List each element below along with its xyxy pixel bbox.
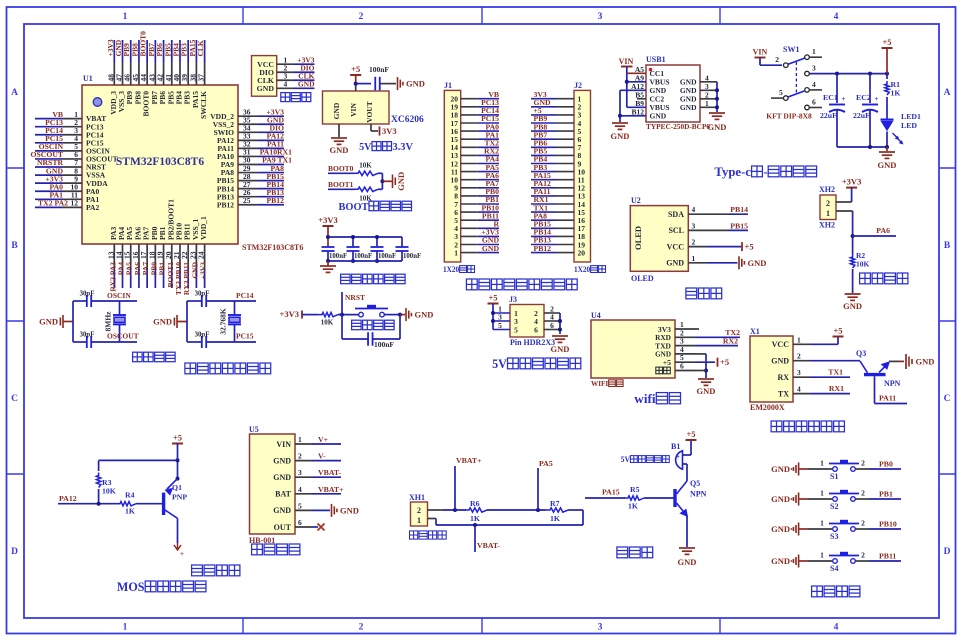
svg-text:3: 3 — [812, 64, 816, 73]
U1 pin 41 PB5 — [171, 40, 173, 62]
svg-text:GND: GND — [39, 317, 58, 327]
SW1 lever — [788, 58, 805, 64]
svg-text:100nF: 100nF — [354, 253, 372, 260]
svg-text:1: 1 — [692, 254, 696, 263]
svg-text:3: 3 — [598, 12, 603, 22]
svg-text:GND: GND — [406, 79, 425, 89]
wire — [136, 503, 162, 505]
svg-text:5: 5 — [298, 501, 302, 510]
svg-text:+5: +5 — [351, 64, 360, 74]
title crystal circuit — [133, 352, 143, 362]
ground — [612, 122, 628, 124]
title buzzer — [617, 547, 628, 558]
svg-text:4: 4 — [284, 79, 288, 88]
svg-text:GND: GND — [153, 317, 172, 327]
wire collector up — [686, 464, 688, 481]
wire emitter to ground — [889, 360, 899, 362]
svg-text:J3: J3 — [509, 295, 517, 304]
svg-text:C: C — [11, 394, 18, 404]
svg-text:2: 2 — [861, 489, 865, 498]
capacitor 30pF top — [201, 295, 203, 307]
svg-text:RX1: RX1 — [829, 384, 844, 393]
svg-text:5: 5 — [514, 325, 518, 334]
svg-text:22uF: 22uF — [853, 111, 870, 120]
U1 pin 39 PB3 — [187, 40, 189, 62]
svg-text:PA12: PA12 — [59, 494, 77, 503]
svg-text:+: + — [676, 453, 680, 461]
wire — [206, 300, 256, 302]
svg-text:VIN: VIN — [619, 57, 634, 66]
title independent buttons — [812, 586, 823, 597]
U1 pin 16 PA6 — [138, 244, 140, 268]
transistor Q5 NPN — [673, 489, 676, 507]
ground — [738, 256, 740, 269]
crystal 8MHz — [119, 301, 121, 315]
svg-text:U4: U4 — [591, 311, 601, 320]
ground — [709, 112, 725, 114]
pushbutton reset — [359, 312, 364, 317]
svg-text:2: 2 — [359, 12, 364, 22]
wire — [381, 173, 383, 189]
svg-text:GND: GND — [666, 259, 684, 268]
U1 pin 31 PA10 — [238, 155, 258, 157]
svg-text:EC2: EC2 — [856, 93, 871, 102]
U1 pin 42 PB6 — [163, 40, 165, 62]
svg-text:GND: GND — [771, 524, 790, 534]
svg-text:+5: +5 — [663, 358, 671, 367]
svg-text:4: 4 — [834, 623, 839, 633]
svg-text:GND: GND — [273, 473, 291, 482]
wire — [378, 188, 382, 190]
resistor R5 1K — [624, 496, 644, 500]
resistor R2 10K — [850, 254, 854, 268]
svg-text:D: D — [11, 547, 18, 557]
U1 pin 43 PB7 — [154, 40, 156, 62]
svg-text:1K: 1K — [125, 507, 135, 516]
connector download-port body — [252, 56, 277, 97]
U1 pin 38 PA15 — [195, 40, 197, 62]
svg-text:RX: RX — [777, 373, 789, 382]
U1 pin 34 SWIO — [238, 131, 258, 133]
svg-text:5: 5 — [498, 321, 502, 330]
svg-text:GND: GND — [708, 122, 727, 132]
transistor Q1 PNP — [162, 493, 165, 515]
svg-text:1: 1 — [820, 519, 824, 528]
wire pin5 +5 — [695, 361, 715, 363]
svg-text:32.768K: 32.768K — [219, 308, 228, 335]
ground — [405, 308, 407, 321]
svg-text:BOOT0: BOOT0 — [328, 164, 354, 173]
svg-text:SCL: SCL — [668, 226, 684, 235]
svg-text:1K: 1K — [891, 89, 901, 98]
svg-text:2: 2 — [692, 238, 696, 247]
power arrow V+ — [174, 543, 181, 550]
U1 pin 15 PA5 — [130, 244, 132, 268]
svg-text:wifi: wifi — [634, 391, 656, 406]
wire buzzer top to +5 — [683, 454, 692, 456]
svg-text:R7: R7 — [550, 499, 560, 508]
wire base to PA11 — [874, 376, 876, 403]
svg-text:U2: U2 — [631, 196, 641, 205]
ground — [679, 547, 695, 549]
svg-text:B: B — [11, 241, 18, 251]
wire pin1 — [695, 328, 699, 330]
svg-text:Type-c: Type-c — [714, 165, 751, 179]
svg-text:10K: 10K — [102, 487, 116, 496]
svg-text:V+: V+ — [318, 435, 329, 444]
U4 pin 6 烧录 — [656, 367, 663, 374]
svg-text:S4: S4 — [830, 564, 838, 573]
svg-text:100nF: 100nF — [329, 253, 347, 260]
svg-text:PB1: PB1 — [879, 490, 893, 499]
power +5 — [741, 242, 743, 251]
wire pin2 RXD — [695, 336, 740, 338]
svg-text:STM32F103C8T6: STM32F103C8T6 — [242, 243, 303, 252]
SW1 pin 4 — [805, 88, 810, 93]
svg-text:+5: +5 — [833, 326, 842, 336]
svg-text:+5: +5 — [488, 293, 497, 303]
capacitor C2 100nF — [352, 237, 354, 247]
svg-text:2: 2 — [826, 199, 830, 208]
svg-text:1K: 1K — [628, 502, 638, 511]
svg-text:PB12: PB12 — [266, 196, 284, 205]
svg-text:3: 3 — [692, 221, 696, 230]
resistor 10K — [354, 187, 378, 191]
title MCU minimal system — [185, 363, 196, 374]
svg-text:GND: GND — [680, 103, 697, 112]
U1 pin 19 PB1 — [163, 244, 165, 268]
wire — [328, 188, 354, 190]
capacitor 30pF bottom — [201, 336, 203, 348]
op-amp U1 body — [82, 85, 238, 244]
svg-text:2: 2 — [775, 55, 779, 64]
SW1 pin 3 — [805, 71, 810, 76]
svg-text:GND: GND — [843, 301, 862, 311]
svg-text:GND: GND — [273, 506, 291, 515]
wire — [886, 48, 888, 74]
wire GND pins right — [716, 82, 718, 112]
svg-text:6: 6 — [812, 97, 816, 106]
svg-text:GND: GND — [415, 310, 434, 320]
svg-text:CLK: CLK — [196, 40, 205, 56]
wire switch pin3 to power rail — [810, 73, 888, 75]
svg-text:10K: 10K — [321, 319, 334, 327]
net PB10 — [869, 528, 901, 530]
svg-text:2: 2 — [861, 551, 865, 560]
U1 pin 4 PC15 — [35, 142, 62, 144]
svg-text:J1: J1 — [444, 81, 452, 90]
ground — [845, 293, 861, 295]
capacitor 100nF — [374, 77, 376, 91]
svg-text:1K: 1K — [470, 514, 480, 523]
SW1 pin 5 — [784, 96, 789, 101]
ground — [886, 147, 888, 151]
svg-text:U5: U5 — [249, 425, 259, 434]
svg-text:B: B — [944, 241, 951, 251]
wire — [568, 509, 583, 511]
svg-text:VBAT-: VBAT- — [318, 468, 341, 477]
title thermistor — [860, 273, 871, 284]
svg-text:PB10: PB10 — [879, 520, 897, 529]
svg-text:1: 1 — [123, 623, 128, 633]
svg-text:XH1: XH1 — [409, 493, 425, 502]
title reset circuit — [352, 320, 362, 330]
wire — [177, 321, 187, 323]
U1 pin 24 VDD_1 — [204, 244, 206, 268]
svg-text:SW1: SW1 — [783, 45, 799, 54]
svg-text:D: D — [944, 547, 951, 557]
svg-text:5V: 5V — [621, 455, 631, 464]
SW1 pin 2 — [784, 63, 789, 68]
svg-text:WIFI: WIFI — [591, 379, 608, 388]
U1 pin 18 PB0 — [154, 244, 156, 268]
U1 pin 35 VSS_2 — [238, 123, 258, 125]
net NRST wire up — [341, 292, 343, 315]
wire — [302, 314, 318, 316]
wire — [63, 321, 73, 323]
wire X1 pin4 RX1 — [810, 393, 850, 395]
U1 pin 6 OSCOUT — [35, 158, 62, 160]
svg-text:S2: S2 — [830, 502, 838, 511]
U1 index dot — [93, 98, 102, 107]
wire XH2 pin1 — [836, 210, 853, 212]
svg-text:BOOT1: BOOT1 — [328, 180, 354, 189]
svg-text:1X20: 1X20 — [443, 265, 459, 274]
wire — [327, 226, 329, 247]
resistor 10K — [354, 171, 378, 175]
svg-text:OLED: OLED — [633, 226, 643, 250]
svg-text:Q5: Q5 — [690, 479, 700, 488]
svg-text:TX2 PA2: TX2 PA2 — [38, 199, 68, 208]
svg-text:PC14: PC14 — [236, 291, 254, 300]
svg-text:37: 37 — [197, 74, 206, 82]
svg-text:GND: GND — [482, 244, 500, 253]
U1 pin 7 NRST — [35, 166, 62, 168]
svg-text:LED1: LED1 — [901, 112, 921, 121]
svg-text:B1: B1 — [671, 442, 680, 451]
U1 pin 1 VBAT — [35, 118, 62, 120]
svg-text:XH2: XH2 — [819, 221, 835, 230]
wire GND pins left — [620, 89, 646, 91]
svg-text:NPN: NPN — [690, 490, 707, 499]
wire XH1 pin1 — [428, 518, 437, 520]
U1 pin 48 VDD_3 — [113, 40, 115, 62]
wire — [91, 300, 137, 302]
svg-text:GND: GND — [748, 258, 767, 268]
svg-text:6: 6 — [550, 321, 554, 330]
svg-text:1: 1 — [417, 516, 421, 525]
SW1 pin 1 — [805, 55, 810, 60]
net VBAT+ — [454, 466, 456, 510]
svg-text:S3: S3 — [830, 532, 838, 541]
svg-text:1X20: 1X20 — [574, 265, 590, 274]
svg-text:8MHz: 8MHz — [104, 311, 113, 332]
svg-text:S1: S1 — [830, 472, 838, 481]
svg-text:A: A — [944, 88, 951, 98]
net PB1 — [869, 498, 901, 500]
svg-text:5V: 5V — [359, 142, 372, 153]
svg-text:+: + — [875, 95, 879, 103]
svg-text:VIN: VIN — [753, 48, 768, 57]
wire pin5 gnd — [312, 509, 330, 511]
resistor 10K — [318, 312, 338, 316]
svg-text:GND: GND — [916, 356, 935, 366]
svg-text:OSCOUT: OSCOUT — [107, 332, 139, 341]
svg-text:GND: GND — [771, 464, 790, 474]
capacitor C1 100nF — [322, 246, 335, 248]
svg-text:GND: GND — [771, 556, 790, 566]
svg-text:R5: R5 — [630, 485, 640, 494]
svg-text:1: 1 — [820, 459, 824, 468]
U1 pin 46 PB9 — [130, 40, 132, 62]
wire — [338, 314, 361, 316]
svg-text:3V3: 3V3 — [382, 126, 397, 136]
svg-text:1: 1 — [298, 435, 302, 444]
svg-text:RX2: RX2 — [723, 336, 738, 345]
svg-text:NRST: NRST — [345, 293, 365, 302]
svg-text:6: 6 — [534, 325, 538, 334]
net PB11 — [869, 560, 901, 562]
ground — [552, 335, 568, 337]
ground — [331, 504, 333, 517]
U1 pin 33 PA12 — [238, 139, 258, 141]
svg-text:SWCLK: SWCLK — [199, 91, 208, 119]
svg-text:VOUT: VOUT — [365, 101, 374, 123]
svg-text:C: C — [944, 394, 951, 404]
wire — [327, 261, 329, 266]
XC6206 VOUT to 3V3 — [370, 124, 372, 131]
title output control — [192, 565, 203, 576]
svg-text:4: 4 — [834, 12, 839, 22]
wire SCL — [707, 229, 729, 231]
svg-text:1: 1 — [797, 335, 801, 344]
svg-text:100nF: 100nF — [374, 340, 394, 349]
svg-text:EM2000X: EM2000X — [750, 403, 785, 412]
zone tick marks — [242, 7, 244, 24]
title QR scanner — [771, 421, 782, 432]
wire GND — [707, 262, 738, 264]
svg-text:20: 20 — [578, 248, 586, 257]
resistor R7 1K — [546, 508, 568, 512]
svg-text:VCC: VCC — [772, 340, 790, 349]
svg-text:J2: J2 — [574, 81, 582, 90]
svg-text:10K: 10K — [856, 260, 870, 269]
wire top rail — [328, 236, 402, 238]
U1 pin 28 PB15 — [238, 180, 258, 182]
svg-text:1: 1 — [812, 47, 816, 56]
svg-text:22uF: 22uF — [820, 111, 837, 120]
svg-text:+3V3: +3V3 — [199, 262, 208, 279]
svg-text:24: 24 — [197, 251, 206, 259]
title charge module — [252, 544, 263, 555]
svg-text:4: 4 — [797, 385, 801, 394]
svg-text:X1: X1 — [750, 327, 760, 336]
svg-text:+3V3: +3V3 — [280, 309, 299, 319]
U1 pin 23 VSS_1 — [195, 244, 197, 268]
svg-text:OUT: OUT — [274, 523, 292, 532]
wire — [378, 172, 382, 174]
svg-text:1: 1 — [820, 489, 824, 498]
net VBAT+ — [312, 493, 341, 495]
svg-text:2: 2 — [298, 452, 302, 461]
svg-text:+5: +5 — [173, 433, 182, 443]
regulator U3 XC6206 body — [323, 91, 390, 124]
U1 pin 44 BOOT0 — [146, 40, 148, 62]
wire — [644, 497, 674, 499]
no-connect X on OUT — [312, 526, 318, 528]
wire pin4 GND — [695, 353, 706, 355]
wire — [328, 172, 354, 174]
resistor R4 1K — [116, 502, 136, 506]
U1 pin 45 PB8 — [138, 40, 140, 62]
svg-text:-: - — [764, 165, 768, 179]
wire — [487, 509, 546, 511]
wire bottom rail — [328, 260, 402, 262]
svg-text:GND: GND — [396, 172, 406, 191]
svg-text:GND: GND — [771, 357, 789, 366]
capacitor 30pF bottom — [86, 336, 88, 348]
svg-text:PB15: PB15 — [730, 221, 748, 230]
U1 pin 20 PB2/BOOT1 — [171, 244, 173, 268]
U1 pin 26 PB13 — [238, 196, 258, 198]
svg-text:U1: U1 — [83, 74, 93, 83]
title chip filter caps — [341, 274, 351, 284]
svg-text:TX1: TX1 — [828, 368, 843, 377]
svg-text:Pin HDR2X3: Pin HDR2X3 — [510, 338, 555, 347]
U1 pin 10 PA0 — [35, 190, 62, 192]
svg-text:VBAT+: VBAT+ — [318, 485, 344, 494]
svg-text:PA2: PA2 — [86, 203, 99, 212]
wire — [356, 83, 371, 85]
U1 pin 14 PA4 — [122, 244, 124, 268]
U1 pin 17 PA7 — [146, 244, 148, 268]
svg-text:GND: GND — [298, 79, 315, 88]
svg-text:30pF: 30pF — [195, 291, 210, 298]
svg-text:1: 1 — [826, 209, 830, 218]
svg-text:PB14: PB14 — [730, 205, 748, 214]
svg-text:+5: +5 — [882, 37, 891, 47]
diode LED1 — [881, 119, 894, 121]
svg-text:EC1: EC1 — [823, 93, 838, 102]
svg-text:XH2: XH2 — [819, 185, 835, 194]
svg-text:PA11: PA11 — [879, 394, 896, 403]
net PA5 — [537, 468, 539, 510]
svg-text:VIN: VIN — [349, 103, 358, 117]
wire X1 pin3 TX1 — [810, 376, 850, 378]
svg-text:STM32F103C8T6: STM32F103C8T6 — [116, 156, 204, 168]
svg-text:VBAT-: VBAT- — [477, 541, 500, 550]
svg-text:5: 5 — [779, 88, 783, 97]
svg-text:GND: GND — [340, 505, 359, 515]
svg-text:SDA: SDA — [668, 210, 684, 219]
U1 pin 22 PB11 — [187, 244, 189, 268]
U1 pin 40 PB4 — [179, 40, 181, 62]
svg-text:30pF: 30pF — [80, 332, 95, 339]
U1 pin 2 PC13 — [35, 126, 62, 128]
resistor R3 10K — [96, 473, 100, 488]
wire pin3 TXD — [695, 345, 738, 347]
U1 pin 29 PA8 — [238, 172, 258, 174]
svg-text:GND: GND — [330, 145, 349, 155]
wire PA6 — [853, 235, 896, 237]
svg-text:PA15: PA15 — [602, 488, 620, 497]
svg-text:3: 3 — [797, 368, 801, 377]
U1 pin 13 PA3 — [113, 244, 115, 268]
U1 pin 25 PB12 — [238, 204, 258, 206]
svg-text:GND: GND — [650, 112, 667, 121]
ground — [392, 175, 394, 189]
svg-text:VCC: VCC — [667, 242, 685, 251]
